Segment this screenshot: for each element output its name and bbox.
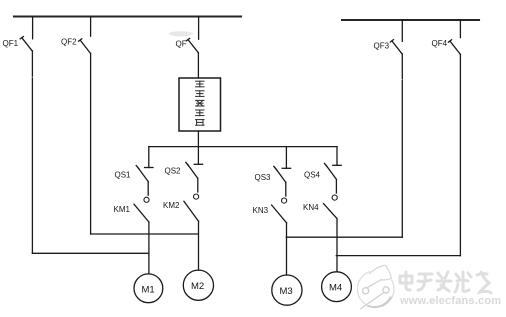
watermark text 电子发烧友 bbox=[400, 272, 491, 293]
motor M2 bbox=[183, 270, 213, 300]
svg-text:QS1: QS1 bbox=[115, 171, 132, 180]
breaker QF (VFD feeder) bbox=[186, 17, 198, 53]
svg-text:KN3: KN3 bbox=[253, 206, 269, 215]
motor M3 bbox=[272, 275, 302, 305]
watermark logo bbox=[357, 265, 394, 309]
wire QF2 to M2 bypass bbox=[91, 233, 199, 235]
wire QF3 to M3 bypass bbox=[286, 236, 402, 238]
bus L1 (left busbar) bbox=[14, 15, 241, 17]
svg-text:KN4: KN4 bbox=[303, 203, 319, 212]
wire QF1 down bbox=[31, 51, 33, 254]
breaker QF3 bbox=[390, 20, 402, 54]
svg-text:M1: M1 bbox=[142, 284, 155, 295]
motor M4 bbox=[322, 272, 352, 302]
svg-text:KM2: KM2 bbox=[163, 201, 180, 210]
svg-text:M3: M3 bbox=[280, 286, 293, 297]
svg-text:QF3: QF3 bbox=[374, 42, 390, 51]
breaker QF1 bbox=[20, 17, 32, 51]
wire QF1 to M1 bypass bbox=[32, 252, 148, 254]
motor M1 bbox=[134, 274, 163, 303]
svg-text:QS3: QS3 bbox=[255, 173, 272, 182]
svg-text:www.elecfans.com: www.elecfans.com bbox=[399, 295, 501, 307]
contactor KN3 bbox=[272, 205, 287, 275]
svg-text:QF4: QF4 bbox=[432, 39, 448, 48]
disconnector QS3 bbox=[274, 147, 291, 204]
wire QF4 to M4 bypass bbox=[336, 255, 460, 257]
wire QF3 down bbox=[401, 54, 403, 237]
wire QF4 down bbox=[459, 54, 461, 256]
disconnector QS2 bbox=[186, 147, 203, 200]
breaker QF2 bbox=[79, 17, 91, 54]
breaker QF4 bbox=[448, 20, 460, 54]
wire QF2 down bbox=[90, 53, 92, 234]
wire QF to VFD box bbox=[197, 53, 199, 78]
disconnector QS1 bbox=[136, 147, 153, 203]
svg-text:QF: QF bbox=[176, 39, 187, 48]
contactor KN4 bbox=[324, 204, 338, 272]
wire VFD box to distribution line bbox=[197, 131, 199, 147]
bus L2 (right busbar) bbox=[342, 19, 479, 21]
wire VFD output distribution line bbox=[149, 146, 337, 148]
label VFD glyphs (高压变频器) bbox=[196, 81, 204, 125]
disconnector QS4 bbox=[324, 147, 341, 201]
svg-text:QS4: QS4 bbox=[304, 170, 321, 179]
svg-text:QS2: QS2 bbox=[165, 167, 182, 176]
VFD box U1 bbox=[179, 78, 221, 131]
contactor KM1 bbox=[134, 204, 149, 274]
svg-text:M2: M2 bbox=[191, 281, 204, 292]
smudge artifact near QF bbox=[169, 31, 193, 36]
svg-text:M4: M4 bbox=[329, 283, 342, 294]
svg-text:QF2: QF2 bbox=[61, 38, 77, 47]
svg-text:KM1: KM1 bbox=[114, 205, 131, 214]
svg-text:QF1: QF1 bbox=[3, 39, 19, 48]
contactor KM2 bbox=[184, 201, 199, 270]
